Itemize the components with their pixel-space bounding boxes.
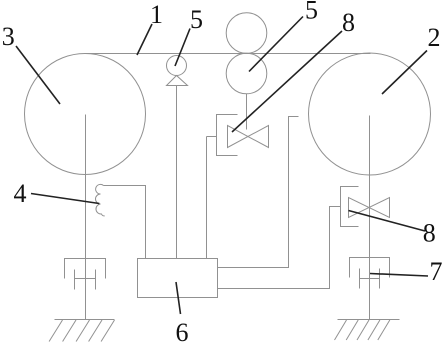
svg-text:8: 8 [342,8,355,37]
svg-text:5: 5 [305,0,318,25]
svg-text:8: 8 [423,219,436,248]
svg-text:4: 4 [14,179,27,208]
svg-text:2: 2 [428,23,441,52]
svg-text:6: 6 [176,318,189,344]
svg-text:3: 3 [2,22,15,51]
svg-text:7: 7 [430,257,443,286]
svg-text:5: 5 [190,5,203,34]
svg-text:1: 1 [150,0,163,29]
